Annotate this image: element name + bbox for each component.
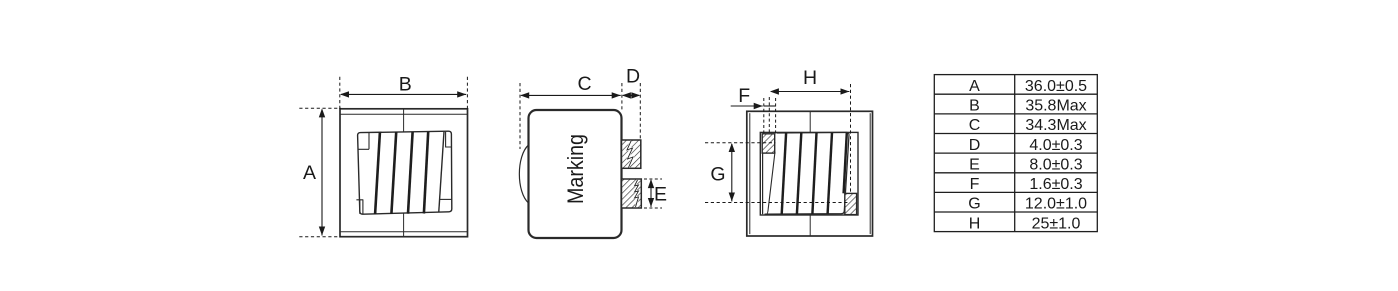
view2 left bulge arc xyxy=(519,145,528,203)
view1 right panel line xyxy=(439,132,444,212)
svg-text:Marking: Marking xyxy=(563,134,588,204)
svg-text:E: E xyxy=(969,156,980,173)
svg-text:25±1.0: 25±1.0 xyxy=(1032,215,1081,232)
F extension line left (dashed) xyxy=(763,98,765,134)
table outer border xyxy=(934,75,1097,232)
svg-text:B: B xyxy=(399,74,412,96)
table row lines xyxy=(934,93,1097,95)
G extension line bottom (dashed) xyxy=(705,202,848,204)
C dimension arrow xyxy=(521,94,621,96)
C extension line left (dashed) xyxy=(519,83,521,149)
svg-text:8.0±0.3: 8.0±0.3 xyxy=(1029,156,1082,173)
svg-text:1.6±0.3: 1.6±0.3 xyxy=(1029,176,1082,193)
view3 dimension F xyxy=(731,97,776,134)
E extension line top (dashed) xyxy=(644,178,662,180)
view3 coil dark winding wires xyxy=(782,133,847,214)
A dimension arrow xyxy=(321,110,323,236)
F extension middle (dashed) xyxy=(768,97,770,133)
svg-text:G: G xyxy=(710,163,725,185)
view1 dimension A xyxy=(299,108,341,236)
view3 outer case rectangle xyxy=(747,111,873,236)
view1 dimension B xyxy=(340,77,468,110)
B extension line right (dashed) xyxy=(466,77,468,110)
svg-text:F: F xyxy=(970,176,980,193)
svg-text:34.3Max: 34.3Max xyxy=(1025,117,1086,134)
view3 coil inner-left slanted line xyxy=(767,152,775,214)
view2 dimension C xyxy=(520,83,622,149)
F extension right (dashed) xyxy=(775,98,777,134)
A extension line bottom (dashed) xyxy=(299,236,341,238)
C extension line right (dashed) xyxy=(621,83,623,110)
svg-text:4.0±0.3: 4.0±0.3 xyxy=(1029,137,1082,154)
H dimension arrow xyxy=(771,91,849,93)
view1 coil left step xyxy=(358,133,369,150)
svg-text:G: G xyxy=(968,196,980,213)
E extension line bottom (dashed) xyxy=(644,207,662,209)
svg-text:12.0±1.0: 12.0±1.0 xyxy=(1025,196,1087,213)
svg-text:F: F xyxy=(738,85,750,107)
view1 vertical centerline top xyxy=(403,109,405,132)
svg-text:E: E xyxy=(654,184,667,206)
view1 right panel bottom tick xyxy=(439,198,452,200)
G extension line top (dashed) xyxy=(705,142,776,144)
view3 vertical centerline top xyxy=(809,111,811,132)
B extension line left (dashed) xyxy=(339,77,341,110)
table column divider xyxy=(1014,75,1016,232)
svg-text:A: A xyxy=(303,162,316,184)
D dimension arrows (back to back) xyxy=(623,94,639,96)
view3 top-left terminal pad xyxy=(762,134,775,153)
view3 coil outline xyxy=(765,132,850,214)
view3 right lip line xyxy=(869,113,871,234)
svg-text:H: H xyxy=(803,67,817,89)
view2 dimension E xyxy=(644,179,662,208)
H extension line right (dashed) xyxy=(850,84,852,193)
view1 vertical centerline bottom xyxy=(403,213,405,236)
view3 coil left edge vertical xyxy=(762,151,764,214)
view2 dimension D xyxy=(622,83,640,139)
svg-text:C: C xyxy=(969,117,981,134)
G dimension arrow xyxy=(731,144,733,201)
A extension line top (dashed) xyxy=(299,107,341,109)
view3 cavity rectangle xyxy=(760,132,858,215)
view1 top lid line xyxy=(340,113,468,115)
table text xyxy=(968,78,1087,232)
view3 dimension G xyxy=(705,143,848,203)
svg-text:36.0±0.5: 36.0±0.5 xyxy=(1025,78,1087,95)
view3 vertical centerline bottom xyxy=(809,215,811,236)
B dimension arrow xyxy=(341,93,466,95)
view2 body rounded rect xyxy=(529,110,622,238)
view1 outer case rectangle xyxy=(340,109,468,237)
svg-text:D: D xyxy=(969,137,981,154)
view3 left lip line xyxy=(749,113,751,234)
view3 dimension H xyxy=(770,84,851,193)
view2 upper terminal pad xyxy=(622,140,641,168)
view1 bottom-left wire end box xyxy=(356,200,363,214)
view1 bottom lid line xyxy=(340,231,468,233)
view1 top-right wire end box xyxy=(446,132,452,147)
view1 coil dark winding wires xyxy=(375,132,428,214)
svg-text:35.8Max: 35.8Max xyxy=(1025,98,1086,115)
E dimension arrow xyxy=(650,180,652,207)
svg-text:C: C xyxy=(577,73,591,95)
view3 bottom-right terminal pad xyxy=(845,193,857,214)
svg-text:D: D xyxy=(626,66,640,88)
view1 coil outline xyxy=(358,131,452,214)
svg-text:H: H xyxy=(969,215,981,232)
F dimension arrow (from left) xyxy=(731,105,763,107)
svg-text:A: A xyxy=(969,78,980,95)
view2 lower terminal pad xyxy=(622,179,642,208)
D extension line right (dashed) xyxy=(639,83,641,139)
svg-text:B: B xyxy=(969,98,980,115)
